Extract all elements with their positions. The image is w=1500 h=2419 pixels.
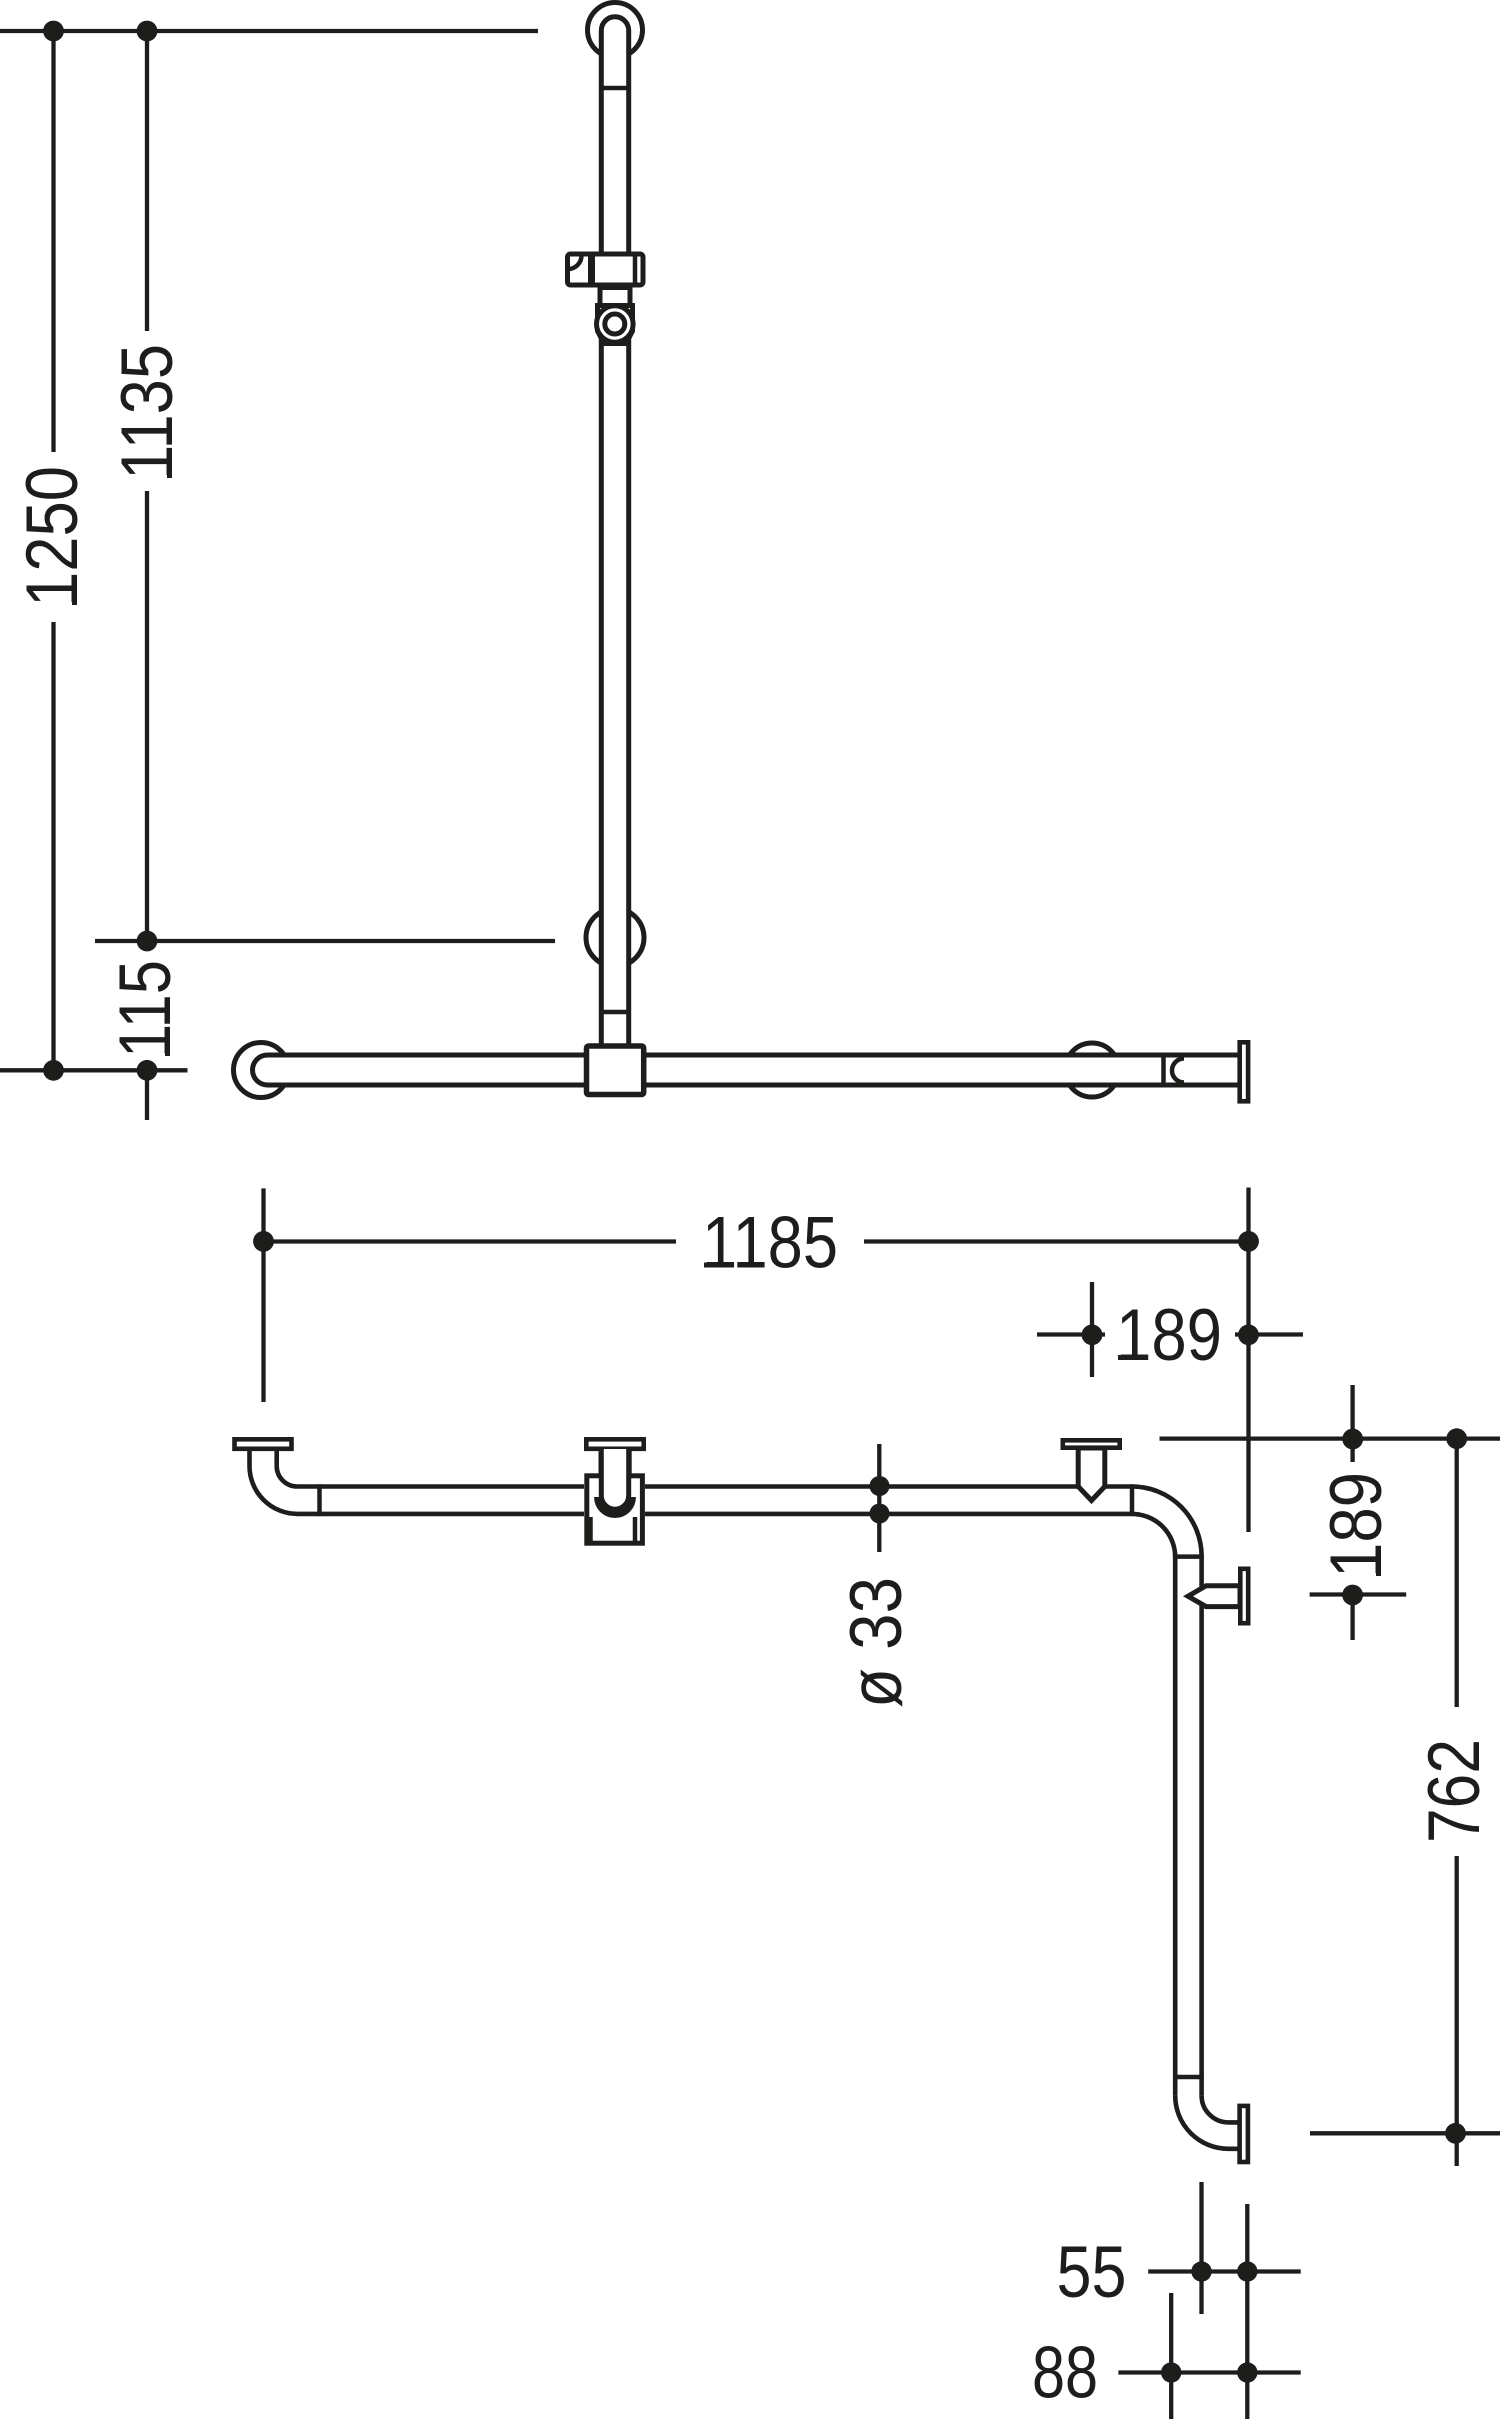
extension line 55 (tube edge) [1199,2182,1203,2314]
wall rose grab bar left [234,1043,289,1098]
extension line 189a [1090,1282,1094,1377]
dot 189a right [1238,1324,1259,1345]
plan: bottom wall flange [1240,2106,1248,2162]
plan: joint line bottom [1173,2075,1204,2080]
dot d33 top [870,1476,890,1496]
plan: middle wall flange [586,1439,643,1449]
wall plate right (side view) [1240,1042,1248,1101]
svg-text:88: 88 [1032,2333,1098,2414]
plan: block divider left [588,1517,593,1544]
plan: fork (tube holder) [601,1449,628,1509]
plan: block divider right [633,1517,638,1544]
dot 189b bottom [1342,1585,1363,1606]
joint line upper [599,86,631,91]
plan: vertical pipe left edge [1173,1557,1178,2096]
svg-text:55: 55 [1057,2232,1127,2313]
plan: bottom bend inner edge [1202,2096,1238,2123]
wall rose top (shower rail) [588,3,643,58]
dot d33 bottom [870,1504,890,1524]
plan: joint line left [317,1484,322,1516]
dot 762 bottom [1445,2123,1466,2144]
wall rose grab bar right [1065,1043,1119,1097]
plan: corner outer arc [1132,1487,1202,1557]
svg-text:1250: 1250 [12,466,93,607]
digit-1 foot serifs [75,418,1379,1576]
dim line diameter 33 [877,1444,881,1552]
slider block [568,254,644,285]
dot 55 right [1237,2261,1257,2281]
svg-text:115: 115 [105,960,186,1058]
dim line 1135 vertical [145,31,149,1120]
dimension line top (1250/1135 top tick) [0,29,538,33]
dim line 189 second vertical [1350,1385,1354,1640]
dim tick base (1250/115 bottom, bar centerline) [0,1068,188,1072]
shower rail vertical tube [601,17,628,1046]
plan: joint line corner vertical [1173,1554,1204,1559]
svg-text:1185: 1185 [702,1203,838,1284]
extension line wall (55/88 right) [1245,2204,1249,2419]
dim tick 762 bottom [1310,2131,1500,2135]
plan: side support arrow [1188,1586,1240,1607]
joint line lower [599,1010,631,1015]
extension line 1185 left [261,1188,265,1402]
knob outer ring [597,306,634,343]
dot 1250 bottom [43,1060,64,1081]
plan: pipe bottom edge (block to corner) [645,1512,1132,1517]
svg-text:762: 762 [1414,1739,1495,1843]
plan: middle support arm lines [601,1449,629,1475]
joint line grab bar right [1161,1055,1166,1085]
grab bar horizontal tube [253,1055,1238,1085]
plan: middle slider block [587,1476,643,1543]
plan: side support wall flange [1240,1569,1248,1623]
knob inner ring [605,314,625,334]
dot 762 top [1446,1428,1467,1449]
dot 1135 bottom [137,931,158,952]
extension line 1185 right [1246,1188,1250,1533]
svg-text:189: 189 [1316,1472,1397,1578]
dot 189a left [1082,1324,1103,1345]
slider divider right [633,252,638,288]
plan: right support arrow [1078,1448,1105,1501]
dim line 1250 vertical [51,31,55,1070]
dim line 1185 [264,1239,1249,1243]
plan: joint line at corner horizontal [1130,1484,1135,1516]
wall rose mid (shower rail lower) [586,909,644,967]
svg-text:ø 33: ø 33 [836,1577,917,1708]
dot 189b top [1342,1429,1363,1450]
plan: pipe left stub+bend inner edge [277,1449,584,1487]
dim tick 189b bottom [1310,1592,1407,1596]
dot 55 left [1191,2261,1211,2281]
plan: vertical pipe right edge [1199,1557,1204,2096]
dot 1185 left [253,1231,274,1252]
slider neck [600,288,630,306]
svg-text:1135: 1135 [107,344,188,480]
dot 1185 right [1238,1231,1259,1252]
T-block junction [587,1046,644,1095]
dot 88 left [1161,2362,1181,2382]
dot 115 bottom [137,1060,158,1081]
plan: right support wall flange [1063,1440,1120,1447]
knob housing [598,306,633,344]
dot top 1250 [43,21,64,42]
plan: pipe left stub+bend outer edge [250,1449,585,1514]
svg-text:189: 189 [1116,1295,1222,1376]
plan: corner inner arc [1132,1514,1175,1557]
dim tick 1135 bottom / 115 top [95,939,555,943]
dim line 55 [1148,2269,1301,2273]
dim line 88 [1118,2370,1300,2374]
plan: pipe top edge (block to corner) [645,1484,1132,1489]
dim line 762 vertical [1455,1439,1459,2166]
dot 88 right [1237,2362,1257,2382]
extension line 88 (tube edge) [1169,2293,1173,2419]
slider divider left [588,252,595,288]
dim line 189 first [1037,1332,1303,1336]
dot top 1135 [137,21,158,42]
plan: bottom bend outer edge [1175,2096,1238,2149]
end cap arc right [1172,1059,1184,1083]
plan: fork bottom thick arc [597,1497,632,1515]
dim tick top right (189b/762 top) [1160,1436,1500,1440]
plan: left wall flange [235,1439,292,1449]
slider clip notch [568,256,582,270]
